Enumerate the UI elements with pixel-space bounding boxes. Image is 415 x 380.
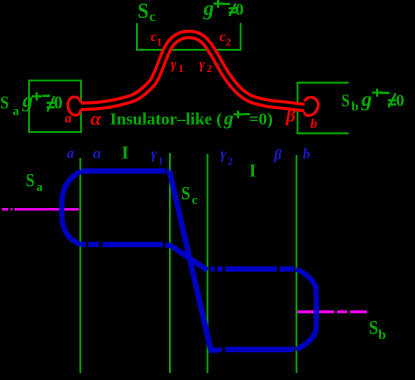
label gamma1 (red)	[171, 57, 184, 75]
blue shallow crossing line	[170, 245, 208, 270]
label Insulator-like (g+-=0)	[110, 109, 273, 130]
steep line foot into band	[209, 350, 222, 351]
svg-text:b: b	[378, 328, 386, 343]
svg-text:1: 1	[158, 157, 163, 168]
svg-text:g: g	[22, 88, 34, 112]
svg-text:γ: γ	[220, 146, 227, 162]
red wire with hump (double line: thick red + black core)	[81, 34, 306, 107]
blue steep crossing line	[170, 171, 211, 350]
label c2 (red)	[220, 30, 231, 48]
blue band lower-right	[209, 347, 294, 352]
svg-text:2: 2	[207, 64, 212, 75]
svg-text:S: S	[0, 93, 9, 113]
label Sc (green, bottom)	[181, 184, 198, 206]
box Sb (right reservoir, open right side)	[298, 83, 349, 134]
svg-text:g: g	[203, 0, 215, 20]
svg-text:2: 2	[228, 157, 233, 168]
svg-text:1: 1	[178, 64, 183, 75]
blue band upper-right (dashed at ends)	[211, 266, 295, 271]
label Sc (top)	[138, 0, 156, 25]
svg-text:Insulator–like (: Insulator–like (	[110, 110, 222, 129]
svg-text:b: b	[303, 146, 311, 162]
svg-text:S: S	[26, 172, 35, 192]
vertical line b	[296, 155, 298, 373]
blue band upper-left	[81, 168, 169, 173]
svg-text:I: I	[249, 161, 256, 181]
box Sa (left reservoir)	[29, 81, 81, 133]
label gamma2 (red)	[199, 57, 212, 75]
svg-text:b: b	[351, 98, 358, 113]
svg-text:I: I	[122, 142, 129, 162]
blue fan right	[296, 269, 316, 350]
label c1 (red)	[151, 30, 162, 48]
bracket under Sc	[137, 23, 241, 50]
svg-text:a: a	[36, 179, 43, 194]
svg-text:γ: γ	[151, 146, 158, 162]
label Sb (green, bottom)	[369, 317, 387, 343]
vertical line a	[79, 158, 81, 373]
label Sa g+-≠0 (left)	[0, 88, 63, 118]
svg-text:=0): =0)	[249, 110, 273, 129]
vertical line gamma2	[207, 154, 209, 373]
svg-text:α: α	[91, 109, 102, 130]
magenta level right	[298, 310, 368, 313]
svg-text:0: 0	[54, 93, 63, 113]
svg-text:g: g	[223, 109, 234, 130]
label g+-≠0 (top center)	[203, 0, 244, 20]
svg-text:0: 0	[396, 91, 405, 110]
label gamma2 (blue)	[220, 146, 233, 167]
label gamma1 (blue)	[151, 146, 164, 167]
svg-text:a: a	[13, 103, 20, 118]
svg-text:a: a	[67, 146, 75, 162]
svg-text:β: β	[285, 105, 296, 126]
svg-text:S: S	[369, 317, 379, 339]
svg-text:S: S	[138, 0, 149, 23]
svg-text:a: a	[65, 112, 72, 127]
svg-text:1: 1	[157, 38, 162, 49]
label Sb g+-≠0 (right)	[342, 87, 405, 113]
label Sa (green, bottom)	[26, 172, 44, 194]
blue fan left	[62, 172, 81, 245]
blue band lower-left (dashed at ends)	[81, 245, 170, 246]
vertical line gamma1	[169, 153, 171, 373]
svg-text:b: b	[310, 117, 317, 132]
svg-text:S: S	[181, 184, 190, 204]
svg-text:2: 2	[226, 38, 231, 49]
svg-text:γ: γ	[199, 57, 205, 72]
blob a (left tunnel contact)	[68, 97, 81, 115]
magenta level left	[2, 208, 79, 210]
svg-text:c: c	[192, 192, 198, 207]
blob b (right tunnel contact)	[304, 97, 318, 115]
svg-text:α: α	[93, 146, 102, 162]
svg-text:g: g	[361, 87, 373, 111]
svg-text:β: β	[273, 148, 282, 164]
svg-text:γ: γ	[171, 57, 177, 72]
svg-text:c: c	[149, 10, 155, 25]
svg-text:S: S	[342, 90, 350, 110]
svg-text:0: 0	[235, 0, 244, 19]
